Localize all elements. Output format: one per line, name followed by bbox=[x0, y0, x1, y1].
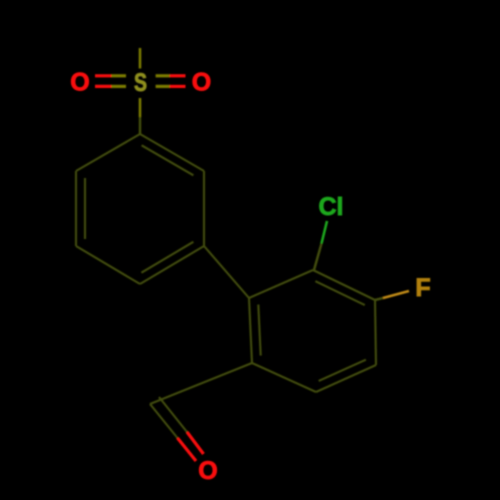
left ring edge C6-C1 bbox=[76, 134, 140, 171]
bond C=O main line C half bbox=[150, 404, 178, 438]
right ring edge E-F bbox=[252, 363, 316, 392]
bond C-Cl chlorine half bbox=[322, 221, 328, 244]
bond C-F carbon half bbox=[375, 298, 383, 300]
bond S=O right, line 2 red half bbox=[170, 85, 186, 88]
left ring edge C4-C5 bbox=[76, 246, 140, 284]
left ring edge C5-C6 (double) bbox=[75, 171, 77, 246]
svg-text:l: l bbox=[337, 193, 344, 221]
right ring edge F-A (double) bbox=[249, 298, 252, 363]
left ring edge C1-C2 (double) bbox=[140, 134, 204, 171]
bond S-C(aryl) S half bbox=[139, 98, 142, 117]
svg-text:O: O bbox=[70, 69, 89, 97]
left ring C5-C6 inner line bbox=[84, 178, 86, 239]
svg-text:S: S bbox=[134, 69, 147, 97]
bond C-Cl carbon half bbox=[314, 244, 322, 271]
svg-text:O: O bbox=[198, 457, 217, 485]
right ring edge A-B bbox=[249, 270, 313, 298]
bond C=O second line O half bbox=[187, 432, 204, 454]
bond S=O right, line 1 red half bbox=[170, 74, 186, 77]
right ring edge B-C (double) bbox=[313, 270, 375, 300]
right ring edge D-E (double) bbox=[316, 365, 376, 392]
left ring edge C2-C3 bbox=[203, 171, 205, 246]
right ring B-C inner line bbox=[315, 281, 364, 305]
bond C=O main line O half bbox=[178, 438, 197, 461]
right ring D-E inner line bbox=[319, 360, 366, 381]
left ring C3-C4 inner line bbox=[141, 242, 193, 273]
left ring C1-C2 inner line bbox=[142, 145, 194, 175]
right ring F-A inner line bbox=[258, 305, 260, 356]
bond S=O right, line 2 S half bbox=[156, 85, 170, 88]
bond S=O left, line 1 S half bbox=[112, 74, 127, 77]
bond S=O left, line 1 red half bbox=[95, 74, 112, 77]
svg-text:F: F bbox=[415, 274, 430, 302]
bond S=O left, line 2 S half bbox=[112, 85, 127, 88]
bond C-F fluorine half bbox=[383, 291, 409, 298]
left ring edge C3-C4 (double) bbox=[140, 246, 204, 284]
bond S=O right, line 1 S half bbox=[156, 74, 170, 77]
bond C(ring)-CHO bbox=[150, 363, 252, 404]
bond S-C(aryl) C half bbox=[139, 117, 142, 134]
biphenyl C-C bond bbox=[204, 246, 249, 298]
bond CH3-S (methyl) bbox=[139, 48, 142, 69]
svg-text:O: O bbox=[192, 69, 211, 97]
bond S=O left, line 2 red half bbox=[95, 85, 112, 88]
right ring edge C-D bbox=[375, 300, 376, 365]
bond C=O second line C half bbox=[159, 397, 187, 432]
svg-text:C: C bbox=[318, 193, 336, 221]
